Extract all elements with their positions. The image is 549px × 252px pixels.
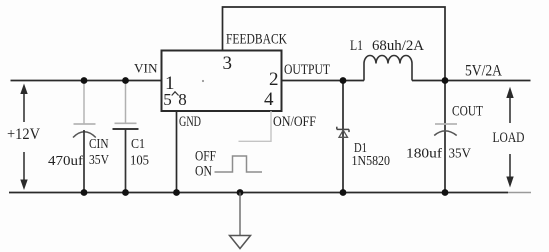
svg-text:OFF: OFF	[195, 149, 216, 165]
svg-text:35V: 35V	[89, 153, 109, 168]
svg-text:4: 4	[264, 89, 274, 110]
svg-text:8: 8	[178, 90, 187, 109]
svg-text:GND: GND	[179, 114, 201, 130]
svg-text:5: 5	[163, 90, 172, 109]
svg-text:FEEDBACK: FEEDBACK	[226, 32, 287, 48]
svg-text:L1: L1	[350, 38, 363, 54]
svg-text:2: 2	[269, 69, 279, 90]
svg-text:1N5820: 1N5820	[352, 154, 391, 169]
svg-text:VIN: VIN	[134, 62, 158, 76]
svg-text:5V/2A: 5V/2A	[465, 63, 502, 80]
svg-text:CIN: CIN	[89, 137, 109, 152]
svg-text:OUTPUT: OUTPUT	[284, 62, 330, 78]
svg-text:LOAD: LOAD	[493, 130, 525, 146]
svg-text:470uf: 470uf	[48, 154, 83, 169]
svg-text:+12V: +12V	[7, 126, 40, 143]
svg-text:180uf: 180uf	[406, 147, 442, 162]
svg-text:ON: ON	[195, 164, 212, 180]
svg-text:3: 3	[223, 53, 233, 74]
svg-text:68uh/2A: 68uh/2A	[372, 38, 424, 54]
svg-text:ON/OFF: ON/OFF	[273, 114, 316, 130]
svg-text:105: 105	[130, 154, 149, 169]
svg-text:C1: C1	[131, 137, 145, 152]
svg-text:35V: 35V	[449, 147, 472, 162]
svg-text:COUT: COUT	[452, 104, 483, 120]
